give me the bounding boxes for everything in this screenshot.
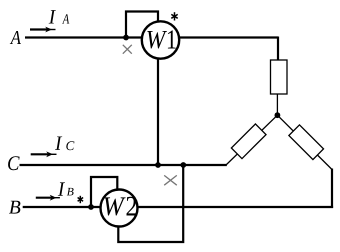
wire: W1 voltage coil loop bbox=[126, 12, 158, 39]
label B bbox=[9, 201, 20, 214]
wire: A drop to load top resistor bbox=[277, 37, 279, 61]
wattmeter W2 bbox=[101, 190, 138, 227]
load: left diagonal resistor bbox=[231, 124, 266, 159]
current arrow I_A bbox=[30, 28, 49, 30]
wire: phase B horizontal line + return to right vertical bbox=[23, 206, 333, 208]
current arrow I_B bbox=[36, 197, 54, 199]
label I_C bbox=[55, 136, 62, 149]
wattmeter W1 bbox=[142, 21, 179, 58]
wire: phase A horizontal line bbox=[25, 36, 278, 38]
node: C line junction with W2 voltage branch bbox=[180, 162, 186, 168]
label A bbox=[10, 31, 21, 44]
load: right diagonal resistor bbox=[289, 125, 324, 160]
current arrow I_C bbox=[31, 153, 50, 155]
label I_A bbox=[49, 10, 56, 23]
wire: phase C horizontal line bbox=[20, 164, 227, 166]
label I_B bbox=[58, 182, 65, 195]
wire: neutral node to phase C end (diagonal) bbox=[226, 115, 277, 165]
wire: W1 bottom to C line bbox=[157, 58, 159, 165]
wire: neutral node to right corner (diagonal) bbox=[277, 115, 332, 169]
node: junction dot on B line bbox=[88, 204, 94, 210]
polarity mark * for W2 bbox=[78, 196, 84, 203]
polarity mark * for W1 bbox=[171, 12, 177, 20]
load: top resistor bbox=[271, 60, 288, 94]
wire: W2 bottom loop to C line junction bbox=[118, 166, 183, 242]
wire: top resistor to neutral node bbox=[276, 94, 278, 115]
node: neutral point dot bbox=[275, 112, 281, 118]
label C bbox=[8, 156, 20, 170]
× mark near W1 junction bbox=[123, 45, 132, 54]
wire: right side vertical down to B return bbox=[331, 169, 333, 209]
node: C line junction with W1 branch bbox=[155, 162, 161, 168]
node: junction dot on A line bbox=[123, 35, 129, 41]
× mark near C junction bbox=[164, 175, 177, 185]
wire: W2 voltage coil loop bbox=[91, 177, 117, 207]
